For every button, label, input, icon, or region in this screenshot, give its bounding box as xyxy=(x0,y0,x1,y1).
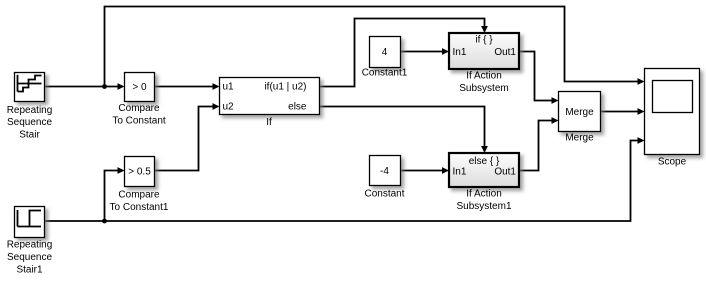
svg-text:Subsystem1: Subsystem1 xyxy=(456,201,511,212)
svg-text:To Constant: To Constant xyxy=(112,115,166,126)
svg-text:u1: u1 xyxy=(223,82,235,93)
svg-text:Out1: Out1 xyxy=(494,47,516,58)
svg-text:> 0.5: > 0.5 xyxy=(128,167,151,178)
svg-text:If: If xyxy=(266,117,272,128)
svg-text:Sequence: Sequence xyxy=(7,117,52,128)
svg-text:If Action: If Action xyxy=(466,71,502,82)
svg-text:Scope: Scope xyxy=(658,157,687,168)
svg-text:Constant: Constant xyxy=(364,188,404,199)
svg-text:Stair1: Stair1 xyxy=(16,264,43,275)
svg-text:In1: In1 xyxy=(453,167,467,178)
svg-text:In1: In1 xyxy=(453,47,467,58)
svg-text:4: 4 xyxy=(382,47,388,58)
svg-text:if(u1 | u2): if(u1 | u2) xyxy=(264,82,306,93)
svg-text:else: else xyxy=(288,102,307,113)
svg-text:Stair: Stair xyxy=(19,129,40,140)
svg-text:Compare: Compare xyxy=(118,190,160,201)
svg-text:Subsystem: Subsystem xyxy=(459,83,508,94)
svg-text:Constant1: Constant1 xyxy=(362,68,408,79)
svg-text:if { }: if { } xyxy=(475,35,493,46)
svg-text:Merge: Merge xyxy=(565,107,594,118)
svg-text:Out1: Out1 xyxy=(494,167,516,178)
svg-text:-4: -4 xyxy=(380,166,389,177)
svg-text:Sequence: Sequence xyxy=(7,252,52,263)
svg-text:Compare: Compare xyxy=(118,103,160,114)
svg-text:> 0: > 0 xyxy=(132,82,147,93)
svg-text:If Action: If Action xyxy=(466,189,502,200)
svg-text:Repeating: Repeating xyxy=(7,240,53,251)
svg-text:To Constant1: To Constant1 xyxy=(110,202,169,213)
svg-text:Repeating: Repeating xyxy=(7,105,53,116)
svg-text:u2: u2 xyxy=(223,102,235,113)
svg-text:else { }: else { } xyxy=(469,156,500,167)
svg-text:Merge: Merge xyxy=(565,133,594,144)
